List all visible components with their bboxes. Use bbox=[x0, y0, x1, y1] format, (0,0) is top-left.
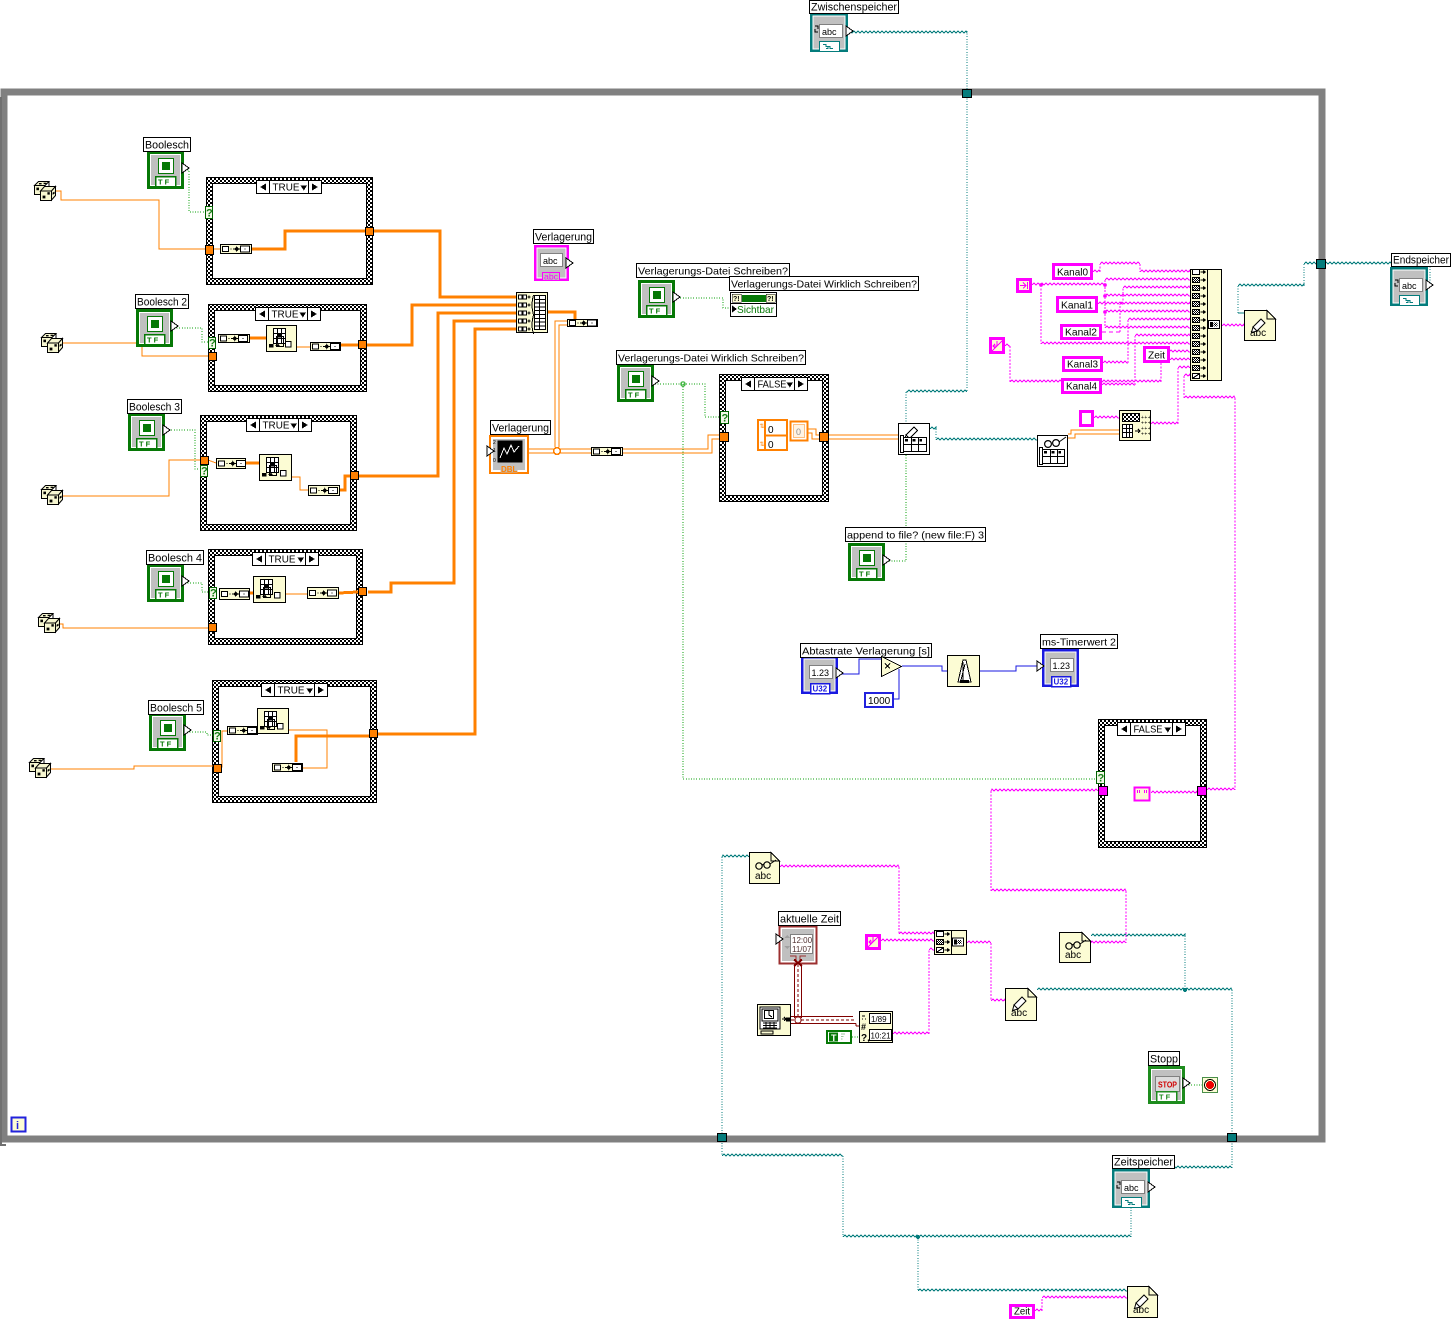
tab constant bbox=[1018, 280, 1031, 292]
svg-text:ms-Timerwert 2: ms-Timerwert 2 bbox=[1042, 637, 1116, 649]
wire multiply to wait ms bbox=[902, 666, 947, 671]
wire Kanal3 to concatenate row7 bbox=[1103, 361, 1128, 363]
svg-text:T F: T F bbox=[158, 178, 170, 187]
numeric constant 1000 bbox=[865, 693, 893, 707]
wire concatenate3 to write characters 2 bbox=[967, 941, 991, 943]
build array node case3 b bbox=[309, 486, 340, 496]
end of line constant bbox=[991, 339, 1004, 353]
wire format date to concatenate3 row3 bbox=[893, 1032, 929, 1034]
wire 2D array down from node bbox=[557, 323, 567, 447]
wire Zwischenspeicher to loop tunnel bbox=[848, 31, 967, 33]
svg-text:?!: ?! bbox=[733, 296, 740, 303]
wire 1000 to multiply bbox=[894, 669, 899, 699]
svg-text:TRUE: TRUE bbox=[272, 309, 299, 321]
case4 selector terminal bbox=[210, 588, 218, 600]
svg-text:#: # bbox=[861, 1022, 866, 1032]
case1 output tunnel bbox=[366, 228, 374, 236]
svg-text:0: 0 bbox=[493, 458, 496, 464]
case structure 6 (FALSE, array constants) bbox=[720, 375, 829, 502]
svg-text:?: ? bbox=[1098, 773, 1105, 785]
get date-time node bbox=[758, 1005, 791, 1036]
svg-text:Verlagerungs-Datei Schreiben?: Verlagerungs-Datei Schreiben? bbox=[638, 266, 788, 278]
svg-text:T: T bbox=[831, 1033, 837, 1043]
svg-text:aktuelle Zeit: aktuelle Zeit bbox=[780, 914, 839, 926]
insert into array node case3 bbox=[260, 455, 292, 481]
case1 selector terminal bbox=[206, 207, 214, 220]
wire Kanal4 to concatenate row9 bbox=[1102, 383, 1135, 385]
boolean control Boolesch 5 bbox=[149, 713, 191, 751]
wire boolesch3 to case3 selector bbox=[166, 430, 201, 469]
svg-text:append to file? (new file:F) 3: append to file? (new file:F) 3 bbox=[847, 530, 984, 542]
svg-text:Kanal0: Kanal0 bbox=[1057, 267, 1088, 279]
svg-text:Zwischenspeicher: Zwischenspeicher bbox=[811, 2, 897, 14]
wire append-to-file to write spreadsheet bbox=[884, 455, 906, 561]
boolean control Stopp bbox=[1148, 1066, 1190, 1104]
svg-text:Boolesch: Boolesch bbox=[145, 140, 189, 152]
case structure 7 (FALSE, empty string) bbox=[1099, 720, 1207, 848]
svg-text:Boolesch 3: Boolesch 3 bbox=[129, 402, 180, 414]
svg-text:Verlagerungs-Datei Wirklich Sc: Verlagerungs-Datei Wirklich Schreiben? bbox=[731, 279, 917, 291]
boolean constant T bbox=[827, 1031, 851, 1043]
wire branch to case7 selector bbox=[683, 384, 1096, 779]
wire 2D array Verlagerung to case6 bbox=[528, 449, 591, 454]
case structure 5 (Boolesch 5, TRUE) bbox=[213, 681, 377, 803]
wire empty string to array-to-string bbox=[1094, 416, 1119, 418]
wire tunnel down to write spreadsheet node bbox=[906, 390, 967, 392]
svg-text:Zeitspeicher: Zeitspeicher bbox=[1114, 1157, 1173, 1169]
svg-text:0: 0 bbox=[768, 440, 774, 451]
array to spreadsheet string node bbox=[1120, 411, 1151, 441]
string indicator Verlagerung bbox=[534, 245, 573, 282]
wire case4 output to build array bbox=[368, 321, 516, 592]
build array node main bbox=[517, 293, 548, 335]
concatenate strings node 2 bbox=[935, 931, 967, 955]
case structure 1 (Boolesch, TRUE) bbox=[207, 178, 373, 285]
svg-text:0: 0 bbox=[768, 425, 774, 436]
wire build array output bbox=[548, 312, 575, 319]
wire Zeit constant to concatenate row12 bbox=[1170, 358, 1190, 360]
string constant Kanal0 bbox=[1054, 265, 1092, 279]
svg-text:Kanal4: Kanal4 bbox=[1066, 381, 1097, 393]
case6 selector terminal bbox=[721, 412, 729, 425]
boolean control Boolesch 4 bbox=[147, 564, 189, 602]
wire case3 output to build array bbox=[359, 313, 516, 476]
svg-text:1000: 1000 bbox=[868, 696, 891, 707]
wire case6 output to write spreadsheet bbox=[829, 435, 898, 440]
case7 left tunnel bbox=[1099, 787, 1108, 796]
svg-text:Verlagerungs-Datei Wirklich Sc: Verlagerungs-Datei Wirklich Schreiben? bbox=[618, 353, 804, 365]
wire read characters 1 path to bottom tunnel bbox=[722, 855, 749, 857]
build array node case5 a bbox=[228, 727, 258, 735]
svg-text:?: ? bbox=[209, 338, 216, 350]
empty string constant bbox=[1081, 412, 1093, 426]
array size node bbox=[568, 320, 598, 327]
svg-text:Verlagerung: Verlagerung bbox=[492, 423, 549, 435]
wire case7 output to concatenate row14 bbox=[1184, 374, 1190, 376]
case6 input tunnel bbox=[720, 433, 729, 442]
multiply node bbox=[882, 657, 902, 677]
svg-text:Verlagerung: Verlagerung bbox=[535, 232, 592, 244]
wire junction dot 2D bbox=[554, 448, 561, 455]
svg-text:⇅: ⇅ bbox=[760, 442, 765, 448]
end of line constant 2 bbox=[867, 936, 880, 949]
wire T constant to format date bbox=[852, 1036, 860, 1038]
case6 output tunnel bbox=[820, 433, 829, 442]
wire case2 output to build array bbox=[366, 305, 516, 345]
random number dice 5 bbox=[30, 759, 51, 778]
svg-text:Boolesch 5: Boolesch 5 bbox=[150, 703, 202, 715]
wire bottom tunnel to Zeitspeicher net bbox=[722, 1154, 843, 1156]
svg-text:TRUE: TRUE bbox=[269, 554, 296, 566]
wire junction to write characters 3 bbox=[917, 1237, 919, 1291]
wire case5 interior bbox=[221, 731, 227, 767]
svg-text:Boolesch 4: Boolesch 4 bbox=[148, 553, 202, 565]
svg-text:?: ? bbox=[201, 466, 208, 478]
svg-text:T F: T F bbox=[139, 440, 151, 449]
case3 selector terminal bbox=[201, 466, 209, 478]
string constant Kanal2 bbox=[1062, 326, 1101, 339]
wire dice4 to case4 bbox=[59, 624, 208, 628]
svg-text:Zeit: Zeit bbox=[1014, 1306, 1030, 1318]
wire array constants to tunnel bbox=[808, 431, 819, 437]
while loop iteration terminal i bbox=[12, 1118, 26, 1133]
wire case5 output to build array bbox=[377, 329, 516, 734]
loop tunnel bottom 2 bbox=[1228, 1134, 1237, 1142]
wire write characters 2 path to bottom tunnel 2 bbox=[1037, 988, 1232, 990]
svg-text:T F: T F bbox=[147, 336, 159, 345]
svg-text:abc: abc bbox=[544, 272, 559, 282]
wire write characters path to Endspeicher bbox=[1238, 312, 1244, 314]
svg-text:Abtastrate Verlagerung [s]: Abtastrate Verlagerung [s] bbox=[802, 646, 930, 658]
svg-text:TRUE: TRUE bbox=[278, 685, 305, 697]
build array node case5 b bbox=[273, 764, 303, 772]
boolean control append to file bbox=[848, 543, 890, 581]
svg-text:?,: ?, bbox=[861, 1033, 870, 1044]
string constant Kanal3 bbox=[1064, 358, 1102, 371]
svg-text:Kanal2: Kanal2 bbox=[1065, 327, 1097, 339]
property node Sichtbar label bbox=[730, 277, 919, 291]
case structure 4 (Boolesch 4, TRUE) bbox=[209, 550, 363, 645]
case2 input tunnel bbox=[209, 353, 217, 361]
loop tunnel bottom 1 bbox=[718, 1134, 727, 1142]
wire read spreadsheet to array-to-string bbox=[1068, 432, 1119, 436]
wire tab constant trunk bbox=[1032, 283, 1105, 285]
case4 input tunnel bbox=[209, 624, 217, 632]
write characters to file node 3 bbox=[1128, 1287, 1158, 1318]
wire get-date-time to aktuelle Zeit bbox=[795, 964, 802, 1018]
svg-text:TRUE: TRUE bbox=[273, 182, 300, 194]
wire case7 interior empty string bbox=[1151, 791, 1197, 793]
svg-text:FALSE: FALSE bbox=[1134, 724, 1163, 736]
svg-text:Kanal1: Kanal1 bbox=[1061, 300, 1093, 312]
svg-text:T F: T F bbox=[859, 570, 871, 579]
svg-text:⇅: ⇅ bbox=[760, 424, 765, 430]
case1 input tunnel bbox=[206, 246, 214, 255]
build array node case4 a bbox=[220, 589, 250, 600]
case4 output tunnel bbox=[359, 588, 367, 596]
read characters from file node 2 bbox=[1060, 933, 1091, 963]
wire end-of-line 2 to concatenate3 row2 bbox=[881, 939, 934, 941]
wire case1 output to build array bbox=[373, 231, 516, 297]
svg-text:1/89: 1/89 bbox=[871, 1015, 887, 1024]
wire Zeit 2 to write characters 3 bbox=[1035, 1309, 1042, 1311]
svg-text:+: + bbox=[1148, 432, 1151, 438]
case3 output tunnel bbox=[351, 472, 359, 480]
insert into array node case2 bbox=[267, 326, 297, 352]
case5 output tunnel bbox=[370, 730, 378, 738]
svg-text:?: ? bbox=[210, 588, 217, 600]
svg-text:Stopp: Stopp bbox=[1150, 1054, 1178, 1066]
wire read characters 1 to concatenate3 row1 bbox=[780, 865, 899, 867]
wire get-date-time to format date bbox=[791, 1017, 860, 1027]
wire Abtastrate to multiply bbox=[838, 659, 881, 674]
svg-text:abc: abc bbox=[822, 27, 837, 37]
random number dice 3 bbox=[42, 486, 63, 505]
svg-text:i: i bbox=[16, 1120, 19, 1132]
svg-text:?: ? bbox=[722, 413, 729, 425]
wire boolesch2 to case2 selector bbox=[174, 328, 208, 342]
boolean control Boolesch 2 bbox=[136, 309, 178, 347]
svg-text:Endspeicher: Endspeicher bbox=[1393, 255, 1449, 267]
svg-text:?: ? bbox=[206, 208, 213, 220]
wire concatenate output to write characters bbox=[1222, 324, 1244, 326]
wire dice5 to case5 bbox=[49, 766, 213, 769]
svg-text:10:21: 10:21 bbox=[871, 1032, 892, 1041]
concatenate strings node bbox=[1191, 270, 1222, 381]
svg-text:abc: abc bbox=[1124, 1183, 1139, 1193]
svg-text:?!: ?! bbox=[767, 296, 774, 303]
case7 right tunnel bbox=[1198, 787, 1207, 796]
wire tab constant to concatenate row10 bbox=[1040, 285, 1042, 344]
array constant in case6 bbox=[758, 420, 787, 451]
wire Kanal1 to concatenate row3 bbox=[1098, 302, 1123, 304]
datetime indicator aktuelle Zeit bbox=[776, 927, 817, 967]
format date-time node bbox=[860, 1012, 893, 1045]
wire Stopp to loop condition bbox=[1186, 1084, 1202, 1086]
svg-text:Zeit: Zeit bbox=[1148, 350, 1165, 362]
svg-text:TRUE: TRUE bbox=[263, 420, 290, 432]
wire dice3 to case3 bbox=[61, 460, 200, 496]
read characters from file node 1 bbox=[750, 853, 780, 884]
wire case4 interior bbox=[250, 592, 253, 595]
string constant Zeit bbox=[1145, 348, 1169, 362]
build array node case2 b bbox=[311, 343, 341, 351]
wire case1 interior bbox=[214, 248, 220, 250]
read from spreadsheet file node bbox=[1038, 436, 1068, 467]
wire boolesch1 to case1 selector bbox=[185, 170, 205, 212]
path indicator Zeitspeicher bbox=[1112, 1169, 1155, 1208]
svg-text:abc: abc bbox=[1402, 281, 1417, 291]
build array node case1 bbox=[221, 245, 252, 254]
svg-text:11/07: 11/07 bbox=[792, 945, 812, 954]
svg-text:1.23: 1.23 bbox=[812, 668, 830, 678]
insert into array node case4 bbox=[254, 577, 286, 603]
wait ms node bbox=[948, 656, 980, 687]
wire wait ms to ms-Timerwert 2 bbox=[980, 666, 1037, 671]
boolean control Boolesch bbox=[147, 151, 189, 189]
svg-text:T F: T F bbox=[1159, 1093, 1171, 1102]
wire dice2 to case2 bbox=[60, 343, 208, 356]
wire array-to-string to concatenate row13 bbox=[1151, 422, 1178, 424]
wire Kanal2 to concatenate row5 bbox=[1102, 331, 1120, 333]
svg-text:Boolesch 2: Boolesch 2 bbox=[137, 297, 187, 309]
loop conditional terminal bbox=[1203, 1078, 1218, 1093]
wire end-of-line constant to concatenate row11 bbox=[1005, 344, 1010, 346]
case2 selector terminal bbox=[209, 338, 217, 350]
case2 output tunnel bbox=[359, 341, 367, 349]
build array node case2 a bbox=[219, 335, 250, 343]
build array node case4 b bbox=[308, 588, 339, 599]
boolean control Boolesch 3 bbox=[128, 413, 170, 451]
write to spreadsheet file node bbox=[899, 424, 930, 455]
wire write spreadsheet to read spreadsheet path bbox=[930, 427, 936, 429]
svg-text:0: 0 bbox=[796, 427, 801, 437]
case structure 3 (Boolesch 3, TRUE) bbox=[201, 416, 357, 531]
svg-text:DBL: DBL bbox=[501, 465, 518, 474]
insert into array node case5 bbox=[258, 709, 289, 734]
svg-text:FALSE: FALSE bbox=[758, 379, 787, 391]
string constant Kanal4 bbox=[1063, 380, 1101, 393]
svg-text:1.23: 1.23 bbox=[1053, 661, 1071, 671]
wire boolesch5 to case5 selector bbox=[187, 732, 213, 735]
boolean control Verlagerungs-Datei Schreiben bbox=[638, 280, 680, 318]
case5 input tunnel bbox=[214, 765, 222, 773]
svg-text:U32: U32 bbox=[813, 685, 828, 694]
svg-text:STOP: STOP bbox=[1158, 1080, 1177, 1090]
wire dice1 to case1 bbox=[53, 191, 206, 249]
wire case7 left tunnel to read characters 2 bbox=[991, 789, 1098, 791]
case3 input tunnel bbox=[201, 457, 209, 465]
random number dice 1 bbox=[35, 182, 56, 201]
wire Kanal0 to concatenate row1 bbox=[1093, 270, 1100, 272]
svg-text:Kanal3: Kanal3 bbox=[1067, 359, 1098, 371]
write characters to file node 2 bbox=[1006, 989, 1037, 1021]
random number dice 2 bbox=[42, 334, 63, 353]
case structure 2 (Boolesch 2, TRUE) bbox=[209, 305, 367, 392]
wire case3 interior bbox=[208, 460, 216, 463]
svg-text:abc: abc bbox=[1065, 950, 1081, 961]
svg-text:Sichtbar: Sichtbar bbox=[737, 304, 774, 316]
loop tunnel top (Zwischenspeicher) bbox=[963, 90, 972, 98]
case7 selector terminal bbox=[1097, 772, 1105, 785]
svg-text:?: ? bbox=[214, 731, 221, 743]
wire read characters 2 path join bbox=[1091, 934, 1185, 936]
svg-text:T F: T F bbox=[160, 740, 172, 749]
svg-text:T F: T F bbox=[649, 307, 661, 316]
array element constant in case6 bbox=[791, 422, 808, 441]
svg-text:U32: U32 bbox=[1054, 678, 1069, 687]
numeric indicator ms-Timerwert 2 bbox=[1037, 649, 1079, 687]
wire Verlagerungs-Datei Schreiben to property node bbox=[675, 298, 730, 308]
waveform terminal Verlagerung DBL bbox=[487, 436, 528, 474]
random number dice 4 bbox=[39, 614, 60, 633]
array size node 2 bbox=[592, 448, 623, 456]
svg-text:T F: T F bbox=[158, 591, 170, 600]
svg-text:abc: abc bbox=[543, 256, 558, 266]
svg-text:abc: abc bbox=[755, 871, 771, 882]
case5 selector terminal bbox=[214, 731, 222, 743]
string constant Kanal1 bbox=[1058, 298, 1097, 312]
boolean control Verlagerungs-Datei Wirklich Schreiben bbox=[617, 364, 659, 402]
write characters to file node bbox=[1245, 311, 1276, 341]
svg-text:2: 2 bbox=[493, 440, 496, 446]
svg-text:T F: T F bbox=[628, 391, 640, 400]
wire Verlagerungs-Datei Wirklich Schreiben to case6 selector bbox=[655, 384, 720, 417]
numeric control Abtastrate Verlagerung bbox=[801, 656, 843, 694]
svg-text:12:00: 12:00 bbox=[792, 936, 813, 945]
string constant Zeit 2 bbox=[1011, 1306, 1034, 1318]
loop tunnel right (Endspeicher) bbox=[1317, 260, 1326, 269]
wire case2 interior bbox=[250, 337, 266, 340]
wire tunnel2 to Zeitspeicher bbox=[1152, 1166, 1232, 1168]
while loop border bbox=[1, 92, 1322, 1145]
path indicator Endspeicher bbox=[1390, 267, 1433, 306]
property node Sichtbar bbox=[731, 293, 777, 317]
path control Zwischenspeicher bbox=[810, 13, 853, 52]
wire boolesch4 to case4 selector bbox=[185, 583, 209, 592]
build array node case3 a bbox=[217, 459, 246, 469]
empty string constant case7 bbox=[1135, 788, 1150, 801]
